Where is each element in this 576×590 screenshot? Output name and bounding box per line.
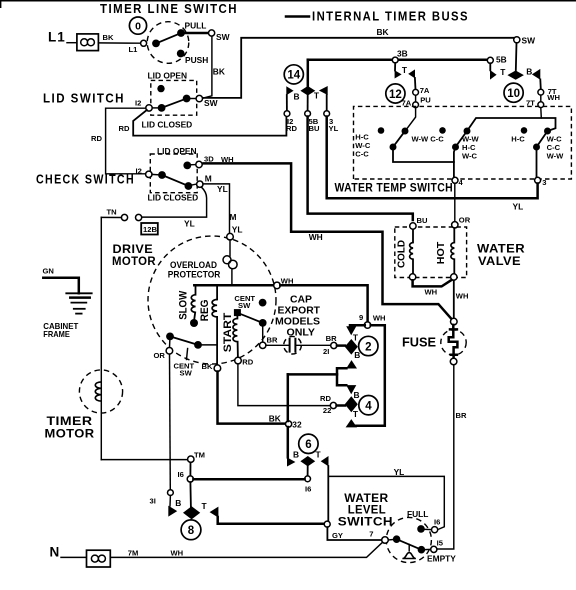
contact dot PULL xyxy=(177,29,185,37)
terminal WH on motor xyxy=(274,282,281,289)
svg-text:BU: BU xyxy=(309,124,320,133)
svg-text:YL: YL xyxy=(394,467,405,477)
fuse dashed circle xyxy=(441,330,466,355)
wire TM to 16 xyxy=(189,462,191,475)
capacitor C1 dashed circle xyxy=(284,336,302,354)
cent sw upper open contact dot xyxy=(259,299,267,307)
svg-text:LID OPEN: LID OPEN xyxy=(157,146,197,156)
wire contact down to terminal OR xyxy=(169,336,172,347)
overload protector loops xyxy=(229,240,231,256)
svg-text:WH: WH xyxy=(456,291,469,300)
svg-text:B: B xyxy=(293,450,299,460)
svg-text:COLD: COLD xyxy=(397,240,408,268)
fuse top terminal xyxy=(451,318,458,325)
svg-text:WH: WH xyxy=(373,313,386,322)
svg-text:WH: WH xyxy=(425,288,438,297)
svg-text:L1: L1 xyxy=(129,45,139,54)
svg-text:2: 2 xyxy=(365,341,371,353)
cent sw lower blade xyxy=(170,336,198,345)
slow winding xyxy=(195,286,197,294)
svg-text:4: 4 xyxy=(365,401,372,413)
svg-text:B: B xyxy=(175,498,181,508)
contact 4 bottom triangle xyxy=(346,419,357,427)
check switch blade xyxy=(162,175,188,186)
svg-text:YL: YL xyxy=(329,124,339,133)
svg-text:T: T xyxy=(202,501,208,511)
water level blade xyxy=(397,539,422,550)
svg-text:H-C: H-C xyxy=(511,135,525,144)
svg-text:HOT: HOT xyxy=(436,242,447,265)
terminal BK xyxy=(214,365,221,372)
svg-text:GN: GN xyxy=(43,267,54,276)
svg-text:T: T xyxy=(314,91,320,101)
svg-text:YL: YL xyxy=(184,219,195,229)
wire 7A into switch to group1 contact xyxy=(406,108,416,130)
svg-text:RD: RD xyxy=(91,134,102,143)
hot output terminal xyxy=(451,274,457,280)
svg-text:BU: BU xyxy=(417,216,428,225)
svg-text:GY: GY xyxy=(332,531,343,540)
wire N to fuse box xyxy=(61,556,87,558)
check switch pivot dot xyxy=(158,171,166,179)
hot solenoid coil xyxy=(453,228,455,273)
terminal BR xyxy=(260,342,266,348)
wire contact 6 T down to junction xyxy=(327,466,329,521)
svg-text:5B: 5B xyxy=(496,54,507,64)
contact 14 terminal 5B BU xyxy=(307,96,309,111)
lid switch blade xyxy=(162,99,187,108)
contact 12 right triangle xyxy=(408,69,415,78)
drive motor dashed circle xyxy=(148,236,276,364)
cent sw upper blade xyxy=(239,313,263,323)
water valve dashed box xyxy=(395,227,467,278)
svg-text:T: T xyxy=(402,65,408,75)
svg-text:B: B xyxy=(526,67,532,77)
cent sw lower pivot dot xyxy=(194,341,202,349)
legend line INTERNAL TIMER BUSS xyxy=(286,15,309,18)
svg-text:B: B xyxy=(354,350,360,360)
timer contact 2 xyxy=(359,336,378,355)
timer motor dashed circle xyxy=(79,370,122,413)
fuse element xyxy=(449,325,458,358)
svg-text:TN: TN xyxy=(107,208,117,217)
svg-text:10: 10 xyxy=(507,88,520,100)
group2 open contact dot C-C xyxy=(439,127,446,134)
EMPTY contact dot xyxy=(418,546,426,554)
timer contact 8 xyxy=(181,520,201,540)
wire WH N line to water level switch 7 xyxy=(110,542,382,557)
cent sw lower contact dot xyxy=(166,333,174,341)
terminal 3 xyxy=(535,177,541,183)
fuse box L1 (line filter) xyxy=(77,34,99,51)
cent sw upper pivot square xyxy=(234,309,241,316)
wire PULL to SW (timer buss) xyxy=(181,32,209,35)
contact 4 top triangle B xyxy=(346,385,356,394)
svg-text:2I: 2I xyxy=(323,347,329,356)
terminal 5B on bus xyxy=(487,57,493,63)
wire BK: SW down to lid switch SW xyxy=(202,36,212,98)
svg-text:0: 0 xyxy=(135,20,141,32)
bracket contact 2 B to contact 4 B xyxy=(337,368,346,385)
svg-text:I2: I2 xyxy=(136,167,142,176)
group3 blade xyxy=(537,131,548,147)
svg-text:T: T xyxy=(353,333,359,343)
wire BU: contact 14 5B terminal down to water valve BU (timer buss) xyxy=(308,117,413,221)
svg-text:WH: WH xyxy=(547,93,560,102)
svg-text:SW: SW xyxy=(204,98,218,108)
wire YL to water level switch FULL xyxy=(328,476,444,529)
terminal 7T lower xyxy=(538,102,544,108)
terminal OR xyxy=(166,348,173,355)
contact 10 diamond B xyxy=(507,71,524,80)
capacitor plates xyxy=(290,338,296,353)
svg-text:INTERNAL TIMER BUSS: INTERNAL TIMER BUSS xyxy=(312,10,469,24)
group3 open contact dot H-C xyxy=(521,127,528,134)
svg-text:PUSH: PUSH xyxy=(185,55,208,65)
wire group2 pivot down to terminal 4 xyxy=(454,147,456,177)
fuse box N (line filter) xyxy=(87,550,111,567)
contact 8 diamond xyxy=(183,506,200,519)
svg-text:W-W: W-W xyxy=(412,135,430,144)
terminal YL on motor xyxy=(227,233,234,240)
terminal 2I BR xyxy=(331,342,337,348)
svg-text:LID OPEN: LID OPEN xyxy=(148,71,188,81)
timer line switch dashed circle xyxy=(147,22,189,64)
svg-text:B: B xyxy=(354,390,360,400)
cold output terminal xyxy=(409,274,415,280)
svg-text:3I: 3I xyxy=(150,497,156,506)
svg-text:W-C: W-C xyxy=(462,152,478,161)
wire 32 vertical (timer buss) xyxy=(287,374,290,457)
svg-text:C-C: C-C xyxy=(430,135,444,144)
svg-text:B: B xyxy=(294,91,300,101)
terminal SW of lid switch xyxy=(196,95,202,101)
svg-text:12: 12 xyxy=(389,89,402,101)
svg-text:BK: BK xyxy=(202,362,213,371)
svg-text:SW: SW xyxy=(216,32,230,42)
lid switch pivot dot xyxy=(158,104,166,112)
lid open contact dot xyxy=(157,85,164,92)
svg-text:6: 6 xyxy=(305,439,311,451)
svg-text:8: 8 xyxy=(188,525,195,537)
svg-text:CAP: CAP xyxy=(290,293,312,305)
svg-text:REG: REG xyxy=(199,300,211,322)
svg-text:SLOW: SLOW xyxy=(178,291,190,320)
wire lid switch SW up and right to contact 10 (BK bus) xyxy=(203,38,515,98)
fuse bottom terminal xyxy=(450,358,457,365)
group2 contact dot xyxy=(464,128,471,135)
terminal 22 RD xyxy=(330,402,336,408)
wire BR fuse down to water level switch EMPTY xyxy=(437,365,454,549)
wire contact 10 to terminal 7T xyxy=(539,79,542,89)
svg-text:OR: OR xyxy=(154,351,166,360)
wire M right and down to drive motor YL terminal xyxy=(203,184,230,234)
internal timer buss 16 xyxy=(193,478,304,481)
contact 6 right triangle T xyxy=(321,456,329,466)
contact 14 diamond xyxy=(300,86,315,96)
svg-text:SW: SW xyxy=(238,301,251,310)
wire TN down left side to timer motor xyxy=(100,217,102,459)
ground wire xyxy=(43,278,79,294)
svg-text:YL: YL xyxy=(217,184,228,194)
timer contact 4 xyxy=(359,396,378,415)
contact 4 diamond xyxy=(337,404,346,407)
wire WH: terminal 3D right, down, to fuse (timer buss) xyxy=(204,163,453,319)
terminal SW at contact 10 xyxy=(514,37,520,43)
terminal M xyxy=(197,181,203,187)
wire pivot to reg line xyxy=(198,344,217,346)
wire WH motor to node 9 (timer buss) xyxy=(280,285,367,322)
terminal 9 WH xyxy=(364,322,370,328)
contact 8 left triangle B xyxy=(169,496,171,507)
terminal 7A lower xyxy=(413,102,419,108)
svg-text:YL: YL xyxy=(513,202,524,212)
timer contact 14 xyxy=(284,65,303,84)
internal timer buss 5B xyxy=(308,58,488,61)
svg-text:SW: SW xyxy=(180,369,193,378)
svg-text:WH: WH xyxy=(309,232,323,242)
svg-text:32: 32 xyxy=(292,419,302,429)
svg-text:M: M xyxy=(230,212,237,222)
motor internal buss xyxy=(194,284,273,287)
junction terminal xyxy=(324,521,330,527)
svg-text:SWITCH: SWITCH xyxy=(338,515,393,529)
timer contact 12 xyxy=(386,84,405,103)
svg-text:MOTOR: MOTOR xyxy=(45,427,95,441)
svg-text:FRAME: FRAME xyxy=(43,329,70,339)
cold solenoid coil xyxy=(412,229,414,273)
svg-text:START: START xyxy=(222,312,234,352)
svg-text:7M: 7M xyxy=(128,549,139,558)
terminal I6 FULL xyxy=(432,527,438,533)
terminal 7 xyxy=(382,537,389,544)
terminal 4 xyxy=(452,177,458,183)
wire RD: terminal RD motor down to 22 xyxy=(238,364,330,406)
svg-text:PROTECTOR: PROTECTOR xyxy=(168,270,221,281)
capacitor leads xyxy=(266,344,331,346)
svg-text:RD: RD xyxy=(286,124,297,133)
wire timer motor to TM xyxy=(101,459,187,461)
svg-text:I2: I2 xyxy=(135,98,141,107)
contact 6 stub to terminal I6 xyxy=(307,466,309,475)
check switch contact dot (lid closed) xyxy=(185,182,193,190)
svg-text:WH: WH xyxy=(171,549,184,558)
svg-text:I6: I6 xyxy=(434,518,440,527)
water level switch dashed circle xyxy=(386,517,431,562)
lid switch contact dot xyxy=(183,95,191,103)
start winding xyxy=(236,316,238,318)
group2 blade xyxy=(456,131,468,147)
group2 pivot dot xyxy=(452,144,459,151)
wire M curve down and left through TN connector xyxy=(142,187,207,217)
wire 32 to bracket (timer buss) xyxy=(288,373,337,376)
svg-text:EMPTY: EMPTY xyxy=(427,554,456,564)
svg-text:SW: SW xyxy=(522,36,536,46)
contact dot xyxy=(152,40,160,48)
contact 10 right triangle xyxy=(532,69,540,80)
switch blade xyxy=(156,33,181,43)
terminal 3D xyxy=(196,161,202,167)
wire to terminal BR xyxy=(262,323,264,342)
svg-text:RD: RD xyxy=(119,124,130,133)
wire YL: terminal 3 down, left, up to contact 14 (timer buss) xyxy=(327,117,538,199)
contact 6 diamond xyxy=(300,456,315,466)
contact 14 right triangle xyxy=(319,86,328,95)
contact dot PUSH xyxy=(177,50,185,58)
wire fuse box to timer switch L1 xyxy=(98,42,140,44)
connector TN xyxy=(136,214,142,220)
svg-text:3: 3 xyxy=(542,178,546,187)
timer motor coil xyxy=(95,382,101,401)
wire contact 8 T to junction (timer buss) xyxy=(218,517,324,524)
pressure dome symbol xyxy=(408,545,410,551)
group1 blade xyxy=(393,131,405,147)
contact 2 top triangle T xyxy=(350,324,365,327)
terminal L1 xyxy=(141,40,147,46)
svg-text:N: N xyxy=(50,545,60,560)
svg-text:7: 7 xyxy=(369,529,373,538)
terminal I2 of check switch xyxy=(146,171,152,177)
svg-text:I6: I6 xyxy=(305,485,311,494)
FULL contact dot xyxy=(417,525,425,533)
svg-text:BK: BK xyxy=(377,27,389,37)
svg-text:14: 14 xyxy=(287,70,300,82)
terminal 7T WH xyxy=(538,89,544,95)
svg-text:LID CLOSED: LID CLOSED xyxy=(142,119,193,129)
svg-text:RD: RD xyxy=(242,358,253,367)
svg-text:RD: RD xyxy=(320,394,331,403)
svg-text:W-W: W-W xyxy=(547,152,565,161)
terminal 31 xyxy=(168,490,174,496)
svg-text:BR: BR xyxy=(326,334,337,343)
svg-text:T: T xyxy=(500,67,506,77)
svg-text:T: T xyxy=(316,450,322,460)
wire GY junction down to water level switch 7 xyxy=(327,527,381,540)
group1 pivot dot xyxy=(390,144,397,151)
wire RD: lid switch I2 left and down to check switch I2 xyxy=(106,108,146,174)
svg-text:WATER TEMP SWITCH: WATER TEMP SWITCH xyxy=(335,180,454,194)
pivot dot xyxy=(393,535,401,543)
wire contact 12 to terminal 7A xyxy=(414,78,417,90)
terminal RD xyxy=(235,357,242,364)
svg-text:FUSE: FUSE xyxy=(402,334,436,349)
contact 6 left triangle B xyxy=(287,457,295,466)
wire WH cold output link to hot output xyxy=(413,280,452,286)
svg-text:22: 22 xyxy=(323,406,331,415)
wire group3 pivot down to terminal 3 xyxy=(536,147,538,177)
wire OR terminal down to 31 xyxy=(169,354,172,489)
svg-text:YL: YL xyxy=(232,224,243,234)
svg-text:BK: BK xyxy=(213,67,225,77)
svg-text:TIMER LINE SWITCH: TIMER LINE SWITCH xyxy=(100,2,238,16)
terminal 3B on bus xyxy=(392,57,398,63)
timer contact 6 xyxy=(299,434,318,453)
svg-text:L1: L1 xyxy=(48,30,66,45)
svg-text:BR: BR xyxy=(456,411,467,420)
contact 12 left triangle T xyxy=(394,63,396,71)
reg winding xyxy=(216,286,218,299)
svg-text:PULL: PULL xyxy=(185,21,207,31)
svg-text:BK: BK xyxy=(103,33,114,42)
svg-text:LID CLOSED: LID CLOSED xyxy=(148,193,199,203)
terminal I5 EMPTY xyxy=(431,546,437,552)
svg-text:MOTOR: MOTOR xyxy=(112,254,156,268)
contact 2 bottom triangle xyxy=(346,360,357,368)
wire terminal 4 down to OR xyxy=(454,184,456,222)
svg-text:LID SWITCH: LID SWITCH xyxy=(43,92,125,106)
wire RD: lid switch I2 diagonal down to contact 14 terminal I2 RD xyxy=(133,110,286,136)
svg-text:PU: PU xyxy=(420,95,431,104)
terminal 16 xyxy=(187,476,193,482)
timer contact 0 xyxy=(129,17,146,34)
terminal I2 xyxy=(146,105,152,111)
group3 contact dot xyxy=(544,128,551,135)
svg-text:FULL: FULL xyxy=(407,509,428,519)
svg-text:VALVE: VALVE xyxy=(478,254,521,268)
contact 14 terminal 3 YL xyxy=(326,95,328,111)
wire BK: terminal BK down right to 32 (timer buss) xyxy=(218,372,286,424)
wire diamond 14 up to 5B bus xyxy=(307,60,310,88)
wire contact 4 T to node 9 (timer buss right edge) xyxy=(356,325,385,426)
svg-text:7A: 7A xyxy=(420,86,430,95)
check switch dashed box xyxy=(150,154,197,193)
wire 16 down to contact 8 diamond xyxy=(189,482,192,507)
contact 14 left triangle B xyxy=(286,86,293,95)
terminal OR xyxy=(452,222,458,228)
check switch lid open contact dot xyxy=(183,162,191,170)
svg-text:I6: I6 xyxy=(178,470,184,479)
svg-text:I5: I5 xyxy=(437,539,444,548)
group1 contact dot W-W xyxy=(402,128,409,135)
terminal SW xyxy=(209,30,215,36)
contact 14 terminal I2 RD xyxy=(286,95,288,111)
svg-text:C-C: C-C xyxy=(355,150,369,159)
cent sw upper contact dot xyxy=(259,319,267,327)
terminal 7A PU xyxy=(413,89,419,95)
group3 pivot dot xyxy=(533,144,540,151)
wire WH hot output down to fuse xyxy=(453,280,455,318)
svg-text:TM: TM xyxy=(194,451,205,460)
svg-text:BR: BR xyxy=(267,336,278,345)
water temp switch dashed box xyxy=(354,106,572,179)
contact 2 diamond xyxy=(337,344,345,347)
wire SW down to contact 10 diamond xyxy=(515,43,518,71)
svg-text:9: 9 xyxy=(359,313,363,322)
wire group2 contact up to 7T bus xyxy=(467,118,556,131)
label CENT SW lower with leader xyxy=(187,349,188,360)
wire 5B terminal down to contact 10 left triangle xyxy=(489,63,491,70)
svg-text:3B: 3B xyxy=(397,49,408,59)
svg-text:OR: OR xyxy=(459,216,471,225)
svg-text:12B: 12B xyxy=(143,225,157,234)
terminal BU xyxy=(410,223,416,229)
terminal TM xyxy=(188,456,194,462)
lid switch dashed box xyxy=(151,80,197,115)
timer contact 10 xyxy=(504,83,523,102)
svg-text:M: M xyxy=(205,174,212,184)
ground cabinet frame symbol xyxy=(66,292,91,294)
connector box 12B xyxy=(141,223,158,235)
contact 10 left triangle T xyxy=(490,70,497,80)
group1 open contact dot xyxy=(378,127,385,134)
group1 pivot to bus xyxy=(393,147,454,162)
wire L1 to fuse box xyxy=(67,42,77,44)
terminal 32 xyxy=(286,421,292,427)
svg-text:T: T xyxy=(353,409,359,419)
svg-text:BK: BK xyxy=(269,414,281,424)
svg-text:CHECK SWITCH: CHECK SWITCH xyxy=(36,173,135,187)
contact 8 right triangle T xyxy=(210,507,219,518)
